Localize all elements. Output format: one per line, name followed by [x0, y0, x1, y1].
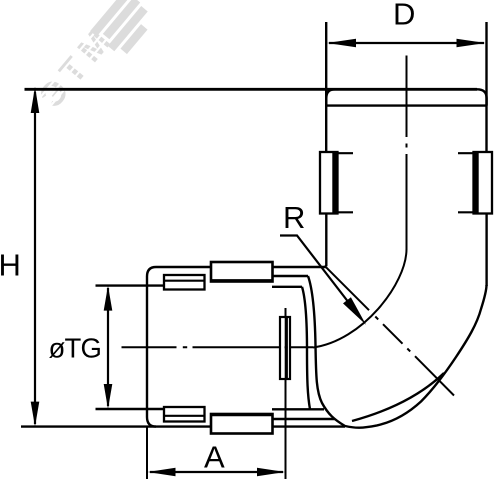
bell mouth outer collar S-curve + outer bend arc of elbow [308, 276, 487, 428]
svg-text:øTG: øTG [49, 333, 102, 364]
OTG dimension line with arrows [104, 286, 113, 409]
svg-text:D: D [393, 0, 415, 32]
conduit line top (OTG top extension) [96, 284, 165, 286]
conduit line bottom (OTG bottom extension) [96, 408, 165, 410]
watermark ETM logo [31, 0, 158, 117]
A left extension line [146, 427, 148, 479]
diagonal 45deg centerline [325, 266, 455, 396]
line L2' bottom [272, 418, 335, 420]
D dimension line with arrows [327, 39, 486, 47]
R leader line with arrow [280, 236, 366, 325]
bend centerline arc [313, 249, 407, 348]
small band bottom on horizontal pipe [164, 407, 205, 422]
H top extension line + cap top edge [25, 88, 478, 91]
vertical pipe left edge [325, 214, 327, 267]
bell mouth inner rim curve [302, 287, 310, 410]
band on vertical pipe right [458, 152, 492, 214]
A dimension line with arrows [148, 468, 286, 476]
vertical centerline [406, 56, 408, 251]
svg-text:A: A [204, 440, 225, 475]
horizontal pipe bottom edge + H bottom extension line [21, 425, 345, 427]
big band bottom on horizontal pipe [211, 414, 273, 434]
band on vertical pipe left [320, 152, 353, 214]
seam band middle (edge-on) [280, 317, 290, 379]
H dimension line with arrows [31, 87, 40, 427]
centerline dot inside seam [285, 346, 288, 348]
cap of vertical pipe [326, 89, 486, 105]
small band top on horizontal pipe [164, 275, 205, 290]
svg-text:R: R [283, 200, 305, 235]
tube outer wall arc inside bend [352, 373, 444, 421]
D dimension extension lines [326, 22, 486, 152]
horizontal pipe left edge with rounded corners [147, 267, 156, 427]
big band top on horizontal pipe [211, 262, 273, 282]
line L3 top (bell inner rim start) [272, 286, 302, 288]
vertical pipe right edge [485, 214, 487, 287]
line L2 top (bell rim upper start) [272, 275, 308, 277]
line L3' bottom [272, 408, 324, 410]
A right extension line through seam [285, 308, 287, 479]
horizontal pipe top edge [156, 266, 326, 268]
svg-text:H: H [0, 248, 21, 283]
horizontal centerline [122, 346, 314, 348]
